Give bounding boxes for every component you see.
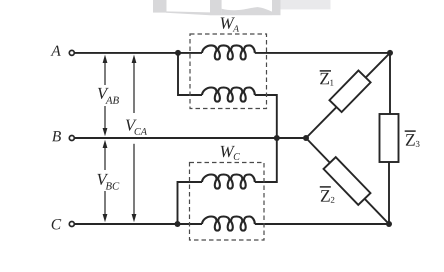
wire WC tap from node on C up and right to voltage coil — [178, 182, 203, 224]
impedance Z1 body — [329, 70, 370, 112]
wattmeter WC voltage coil — [202, 175, 255, 189]
junction node top right — [387, 50, 393, 56]
junction node on A — [175, 50, 181, 56]
terminal A — [69, 50, 74, 55]
label WA — [221, 17, 239, 31]
wire diagonal mid node to bottom node through Z2 — [306, 138, 389, 224]
voltage arrow VCA — [133, 61, 135, 113]
wire vertical right through Z3 — [389, 53, 391, 116]
junction node bottom right — [386, 221, 392, 227]
label B — [52, 131, 61, 141]
wire line B to WC voltage coil vertical — [255, 138, 277, 182]
label Z3 with overline — [406, 134, 420, 147]
label Z2 with overline — [321, 190, 335, 203]
impedance Z3 body — [380, 114, 399, 162]
label C — [52, 219, 62, 229]
junction node B end — [303, 135, 309, 141]
label WC — [221, 146, 240, 160]
impedance Z2 body — [324, 157, 371, 205]
junction node on C — [175, 221, 181, 227]
terminal B — [69, 136, 74, 141]
wire line A — [75, 52, 203, 54]
wire WA voltage coil right to line B vertical — [255, 95, 277, 138]
wattmeter WA voltage coil — [202, 88, 255, 102]
junction node B at vertical — [274, 135, 280, 141]
dashed box wattmeter WA — [190, 34, 267, 109]
wattmeter WC current coil — [202, 217, 255, 231]
label VAB — [98, 88, 119, 104]
dashed box wattmeter WC — [190, 163, 265, 241]
wire diagonal A-node to mid node through Z1 — [306, 53, 390, 138]
wire line B — [75, 137, 307, 139]
voltage arrow VAB — [104, 61, 106, 85]
voltage arrow VBC — [104, 146, 106, 170]
label VCA — [126, 120, 147, 135]
wire line C — [75, 223, 203, 225]
label Z1 with overline — [320, 73, 333, 86]
wattmeter WA current coil — [202, 45, 255, 59]
label VBC — [97, 174, 119, 190]
wire WA tap from node on A down and right to voltage coil — [178, 53, 202, 95]
label A — [50, 46, 60, 56]
terminal C — [69, 222, 74, 227]
